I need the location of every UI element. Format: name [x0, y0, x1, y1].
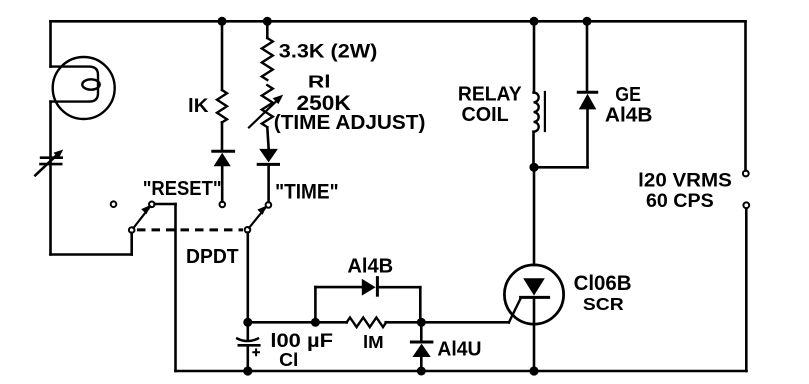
capacitor C1 top wire: [247, 322, 250, 339]
svg-text:60 CPS: 60 CPS: [646, 190, 714, 212]
SCR Q1 body: [504, 265, 563, 324]
wire diode to contact: [267, 164, 270, 202]
svg-text:"TIME": "TIME": [275, 181, 339, 204]
junction dot relay top: [530, 17, 539, 26]
diode D1 (points up): [213, 150, 234, 153]
diode GE A14B feed wire: [586, 21, 589, 92]
svg-text:Al4U: Al4U: [437, 339, 481, 361]
contact "RESET" terminal: [220, 202, 226, 208]
svg-text:3.3K (2W): 3.3K (2W): [279, 42, 378, 63]
SCR Q1 junction triangle: [523, 278, 545, 295]
wire 1K branch upper: [221, 21, 224, 90]
contact "TIME" terminal: [266, 202, 272, 208]
wire mid rail (gate net): [248, 321, 347, 324]
wire right rail lower: [745, 208, 748, 371]
svg-text:Rl: Rl: [308, 71, 331, 91]
junction dot A14U bottom: [417, 367, 426, 376]
SCR Q1 gate lead: [509, 298, 521, 323]
resistor 3.3K: [262, 38, 273, 80]
switch S1a unused contact: [111, 201, 117, 207]
svg-text:lK: lK: [188, 96, 209, 117]
DPDT mechanical link (dashed): [137, 228, 243, 231]
capacitor C1 bottom wire: [247, 345, 250, 371]
lamp lower wire: [49, 102, 52, 255]
svg-text:COIL: COIL: [462, 103, 509, 126]
relay coil bottom wire: [532, 132, 535, 168]
capacitor C1 plus sign: [253, 349, 259, 355]
diode D2 (points down): [259, 149, 278, 163]
svg-text:"RESET": "RESET": [143, 177, 222, 200]
switch S1b pole: [245, 227, 251, 233]
svg-text:SCR: SCR: [583, 294, 624, 314]
source terminal lower: [743, 202, 749, 208]
wire bottom rail: [176, 370, 747, 373]
svg-text:l00 µF: l00 µF: [270, 330, 333, 352]
diode A14B (points right): [362, 279, 376, 296]
svg-text:(TIME ADJUST): (TIME ADJUST): [274, 112, 426, 134]
wire R branch upper: [266, 21, 269, 38]
junction dot 1K top: [218, 17, 227, 26]
svg-text:lM: lM: [363, 332, 384, 352]
wire bypass right riser: [419, 287, 422, 322]
svg-text:DPDT: DPDT: [186, 245, 239, 268]
SCR Q1 anode wire: [533, 167, 536, 265]
switch S1a throw contact: [149, 202, 155, 208]
junction dot GE top: [583, 17, 592, 26]
SCR Q1 cathode wire: [533, 297, 536, 371]
wire right rail upper: [744, 21, 747, 170]
svg-text:l20 VRMS: l20 VRMS: [638, 169, 732, 191]
junction dot C1 bottom: [243, 366, 252, 375]
diode GE A14B (points up): [578, 91, 596, 94]
lamp DS1 feed wire: [49, 21, 52, 66]
SCR Q1 cathode bar: [521, 296, 549, 299]
diode A14U (points up): [420, 322, 423, 340]
potentiometer R1 zigzag: [262, 85, 273, 127]
wire throw to neutral drop: [155, 203, 176, 206]
relay coil L1: [534, 93, 539, 132]
wire GE diode to relay junction: [534, 166, 588, 169]
junction dot bypass right: [417, 318, 426, 327]
svg-text:Al4B: Al4B: [605, 105, 653, 127]
capacitor C1 curved plate: [237, 339, 258, 342]
source terminal upper: [743, 171, 749, 177]
junction dot bypass left: [311, 318, 320, 327]
switch S1b arm: [249, 207, 266, 228]
relay coil core bar: [544, 92, 546, 131]
junction dot 3.3K top: [263, 17, 272, 26]
wire bypass left riser: [314, 287, 317, 322]
variable capacitor (trimmer in lamp leg): [41, 156, 62, 159]
resistor 1K: [217, 90, 227, 122]
wire 1K to diode: [221, 122, 224, 149]
svg-text:Cl06B: Cl06B: [574, 272, 632, 295]
svg-text:GE: GE: [615, 84, 641, 106]
wire bypass top right: [377, 286, 420, 289]
wire bypass top left: [315, 286, 361, 289]
switch S1b pole wire down: [247, 233, 250, 323]
lamp DS1: [53, 57, 115, 119]
switch S1a arm: [133, 206, 150, 228]
svg-text:Cl: Cl: [279, 350, 298, 370]
junction dot SCR cathode bottom: [529, 366, 538, 375]
junction dot relay-GE-SCR node: [529, 163, 538, 172]
junction dot R branch mid-rail: [243, 318, 252, 327]
svg-text:Al4B: Al4B: [347, 255, 393, 277]
switch S1a pole: [129, 227, 135, 233]
potentiometer R1 arrow: [249, 100, 278, 127]
wire diode to contact: [221, 166, 224, 202]
wire pot to diode: [267, 127, 268, 148]
wire top rail: [51, 20, 746, 23]
resistor 1M: [347, 318, 387, 328]
capacitor C1 straight plate: [239, 344, 259, 347]
wire lamp to switch pole: [51, 253, 132, 256]
relay coil top wire: [533, 21, 536, 92]
